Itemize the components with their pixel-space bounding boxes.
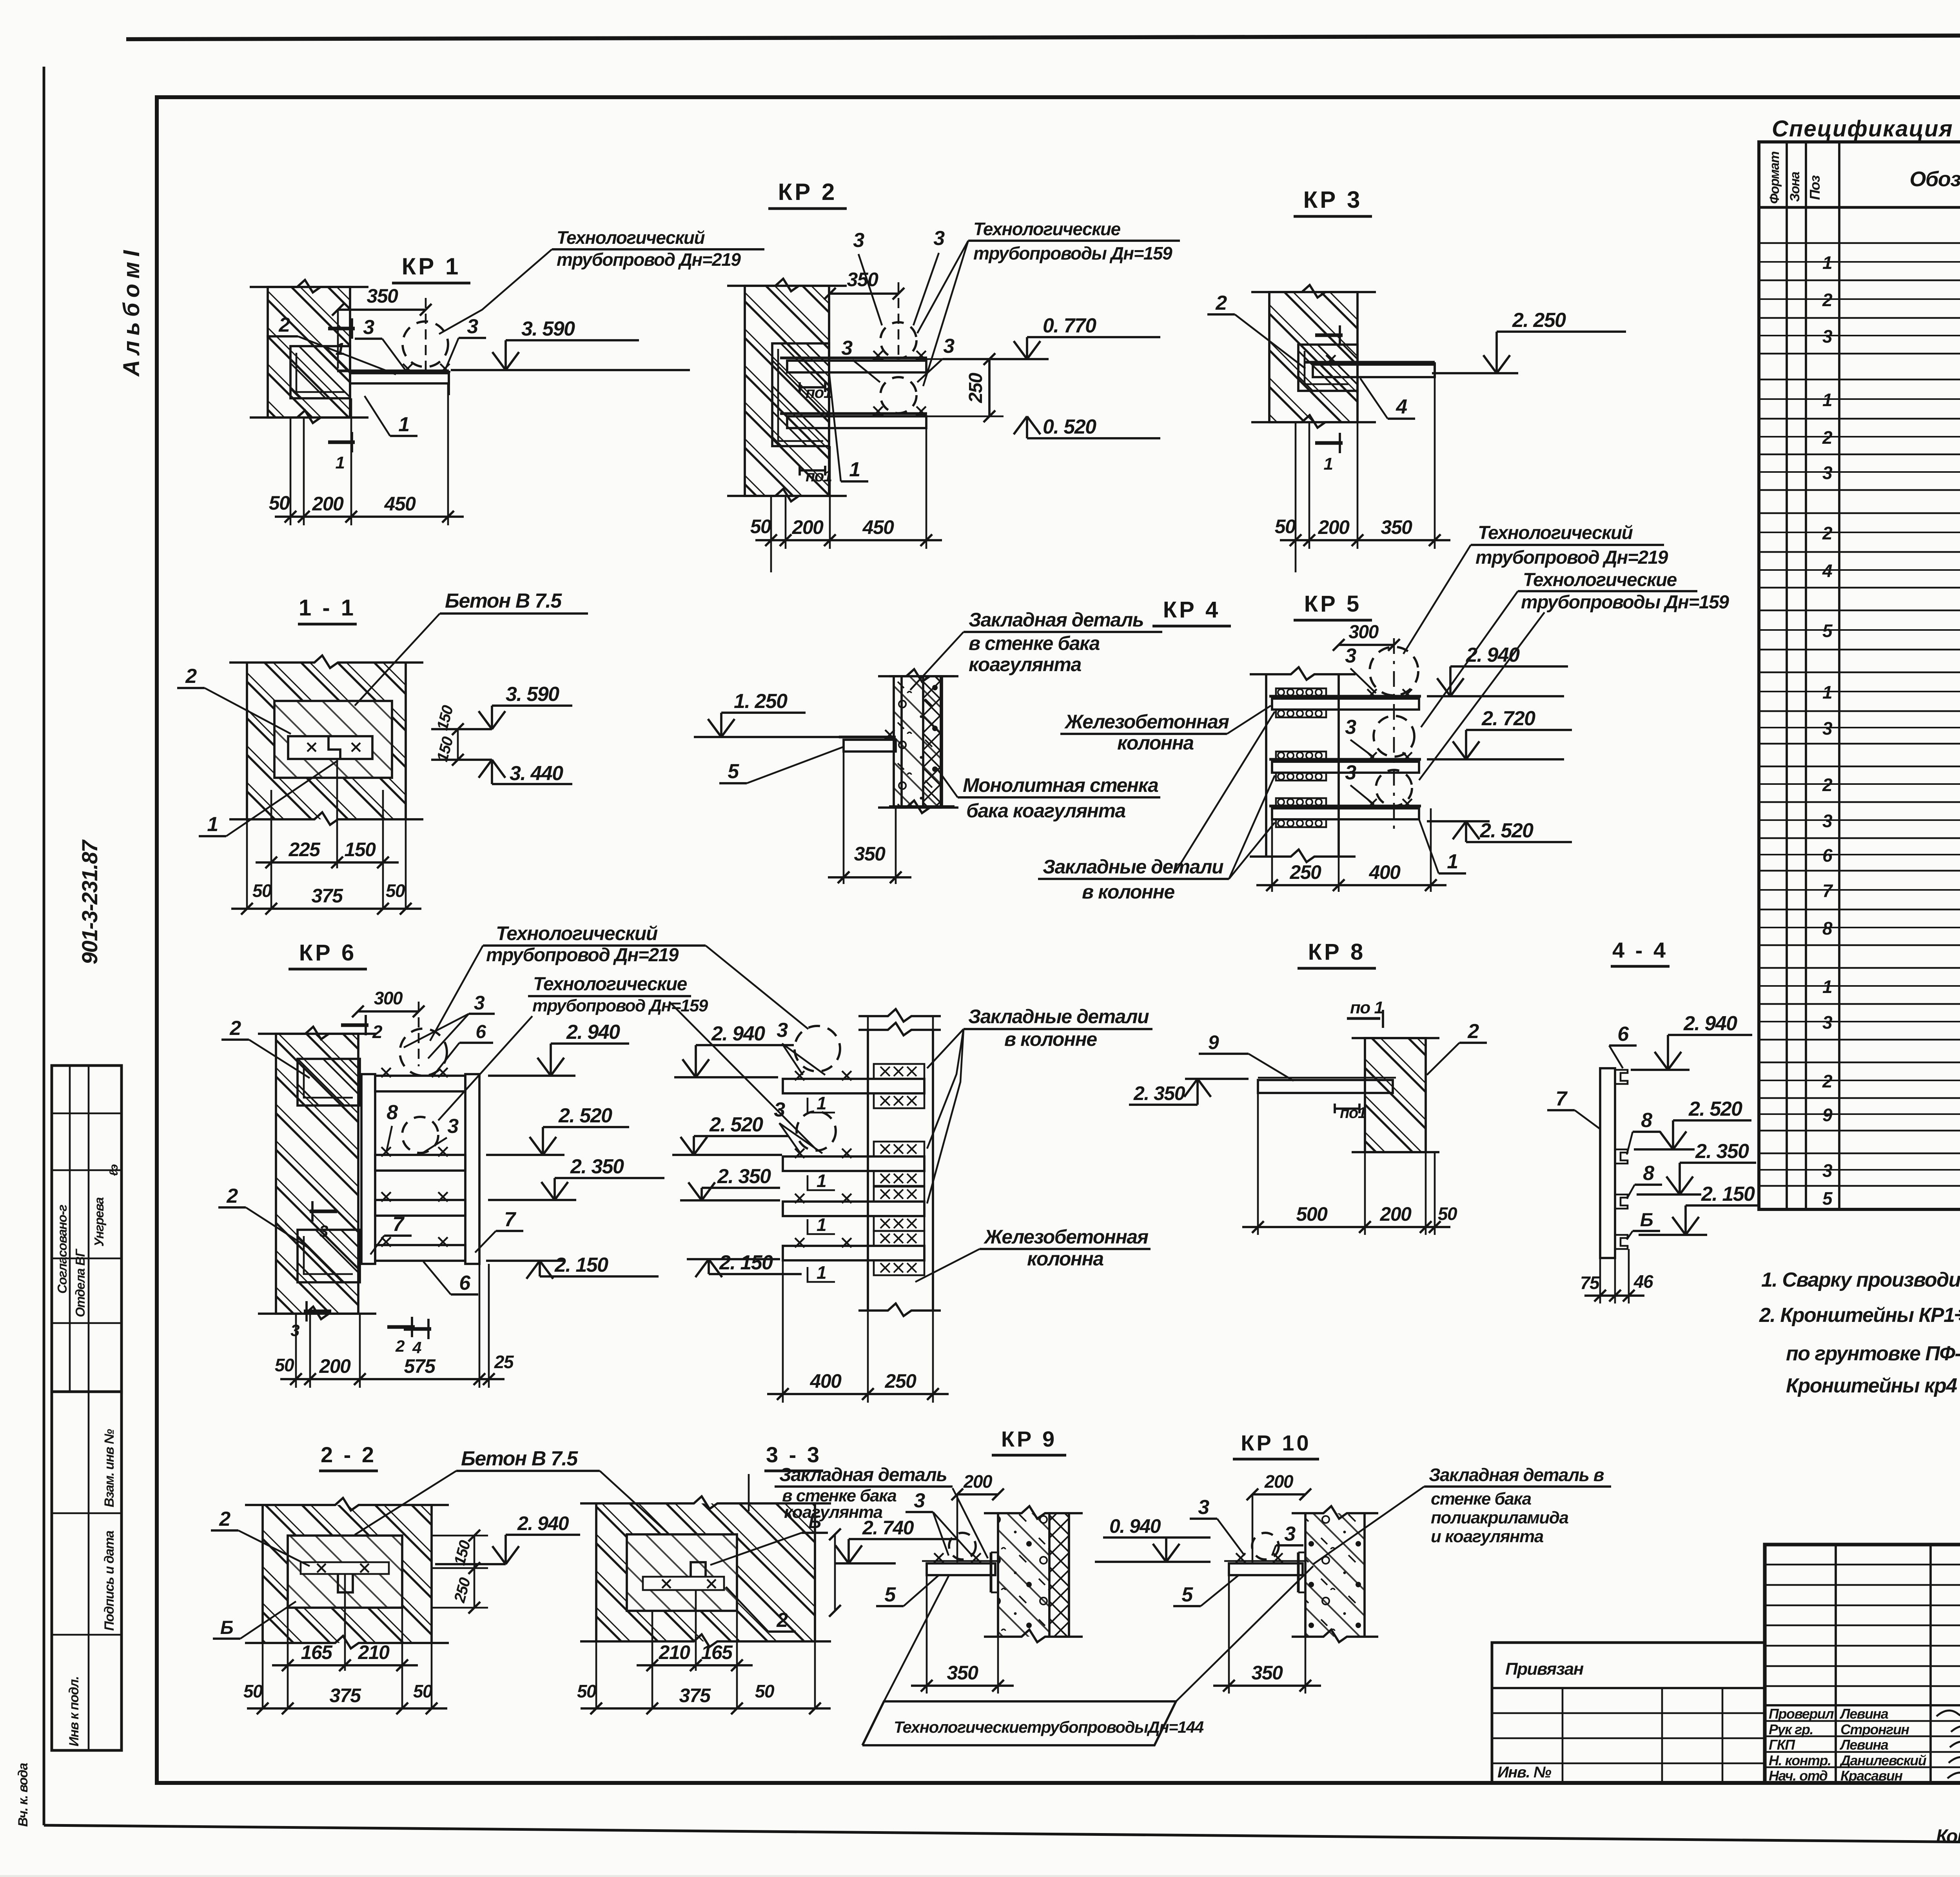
svg-text:3: 3 (447, 1115, 459, 1138)
KP2 dim 350 (830, 292, 898, 295)
svg-text:Н. контр.: Н. контр. (1769, 1752, 1831, 1768)
title block outer (1765, 1545, 1960, 1783)
KP6 dim 300 (358, 1010, 419, 1013)
KP1 section mark 1 bottom (328, 440, 355, 444)
2-2 bottom dims (287, 1608, 289, 1709)
svg-text:2: 2 (226, 1185, 238, 1207)
svg-text:46: 46 (1633, 1271, 1653, 1292)
KP8 bracket pos9 (1258, 1080, 1393, 1093)
KP10 dim 200 top (1252, 1493, 1305, 1496)
KP9 wall (998, 1513, 1049, 1637)
svg-text:8: 8 (1641, 1109, 1652, 1132)
svg-text:Красавин: Красавин (1840, 1768, 1903, 1784)
KP6 embedded detail upper pos2 (298, 1059, 360, 1106)
svg-text:3: 3 (1822, 326, 1833, 347)
2-2 wall block (263, 1505, 432, 1643)
KP7 levels left (696, 1044, 794, 1046)
KP6 embedded detail lower pos2 (298, 1230, 360, 1282)
KP7 brackets and embedded plates (783, 1079, 924, 1093)
svg-text:3: 3 (1345, 644, 1356, 667)
1-1 bottom dims (270, 790, 272, 909)
svg-text:7: 7 (1822, 880, 1833, 901)
svg-text:0. 940: 0. 940 (1109, 1515, 1161, 1537)
svg-text:1: 1 (1822, 977, 1832, 997)
svg-text:50: 50 (1438, 1204, 1457, 1224)
svg-text:1: 1 (207, 813, 218, 836)
svg-text:Вч. к. вода: Вч. к. вода (16, 1763, 31, 1827)
svg-text:2. 350: 2. 350 (1133, 1082, 1185, 1104)
svg-text:3: 3 (1822, 718, 1833, 739)
top sheet rule (126, 34, 1960, 39)
svg-text:Отдела ВГ: Отдела ВГ (73, 1248, 87, 1317)
KP6 section marks 3 (310, 1209, 337, 1213)
KP10 level 0.940 (1103, 1536, 1210, 1539)
svg-text:трубопровод Дн=219: трубопровод Дн=219 (557, 249, 741, 270)
svg-text:трубопровод Дн=159: трубопровод Дн=159 (532, 996, 708, 1015)
svg-text:КР 4: КР 4 (1163, 597, 1220, 623)
svg-text:50: 50 (243, 1681, 263, 1701)
KP1 pipe D219 (403, 321, 448, 367)
svg-text:Железобетонная: Железобетонная (1064, 711, 1229, 733)
2-2 embedded channel pos2 (301, 1562, 389, 1574)
svg-text:2: 2 (278, 314, 290, 336)
svg-text:коагулянта: коагулянта (784, 1503, 883, 1522)
svg-text:210: 210 (659, 1641, 691, 1663)
KP2 dim 250 vertical (988, 359, 991, 416)
svg-text:2: 2 (229, 1017, 241, 1040)
svg-text:5: 5 (728, 760, 739, 783)
KP3 wall section (1269, 292, 1357, 422)
privyazan table (1492, 1643, 1765, 1783)
svg-text:2: 2 (1822, 427, 1833, 448)
KP3 level 2.250 (1497, 330, 1626, 333)
svg-text:Бетон В 7.5: Бетон В 7.5 (461, 1447, 578, 1470)
KP5 column (1265, 674, 1267, 857)
svg-text:2. 350: 2. 350 (570, 1155, 624, 1178)
KP4 bracket pos5 (839, 736, 896, 739)
svg-text:575: 575 (404, 1355, 436, 1377)
svg-text:4: 4 (1396, 396, 1407, 418)
KP10 dim 350 (1228, 1575, 1230, 1694)
svg-text:3: 3 (914, 1489, 925, 1512)
svg-text:Привязан: Привязан (1505, 1659, 1584, 1679)
KP9 pipe (949, 1533, 976, 1559)
title block mid columns (1835, 1545, 1837, 1783)
svg-text:2: 2 (395, 1337, 405, 1355)
svg-text:3: 3 (943, 335, 955, 358)
svg-text:Закладная деталь: Закладная деталь (779, 1465, 947, 1485)
KP2 bottom dims (770, 496, 772, 572)
svg-text:375: 375 (312, 885, 344, 907)
svg-text:210: 210 (358, 1641, 390, 1663)
svg-text:8: 8 (387, 1101, 398, 1124)
svg-text:Формат: Формат (1767, 152, 1782, 204)
svg-text:5: 5 (1822, 621, 1833, 641)
svg-text:Технологический: Технологический (557, 227, 705, 248)
svg-text:3: 3 (1284, 1523, 1296, 1545)
svg-text:3: 3 (1822, 811, 1833, 831)
svg-text:Закладные детали: Закладные детали (968, 1006, 1149, 1027)
svg-text:по1: по1 (1340, 1104, 1366, 1122)
svg-text:165: 165 (301, 1641, 333, 1663)
KP2 wall section (745, 286, 829, 496)
svg-text:ТехнологическиетрубопроводыДн=: ТехнологическиетрубопроводыДн=144 (894, 1718, 1204, 1736)
KP6 section marks 2 (341, 1023, 368, 1027)
svg-text:25: 25 (494, 1352, 514, 1372)
svg-text:2. 150: 2. 150 (719, 1251, 773, 1274)
approval stamp table (52, 1066, 122, 1392)
KP5 level 2.940 (1450, 665, 1568, 668)
svg-text:Обозначение: Обозначение (1909, 167, 1960, 191)
svg-text:50: 50 (252, 880, 272, 901)
svg-text:трубопроводы Дн=159: трубопроводы Дн=159 (1521, 592, 1729, 613)
svg-text:0. 770: 0. 770 (1043, 314, 1096, 337)
svg-text:1: 1 (1822, 252, 1832, 273)
KP10 bracket pos5 (1229, 1563, 1303, 1575)
svg-text:3: 3 (853, 229, 864, 252)
KP9 dim 200 top (957, 1493, 998, 1496)
svg-text:5: 5 (1822, 1188, 1833, 1209)
svg-text:Б: Б (1640, 1210, 1653, 1231)
svg-text:2: 2 (1822, 1071, 1833, 1091)
KP9 bracket pos5 (927, 1563, 995, 1575)
svg-text:полиакриламида: полиакриламида (1431, 1508, 1568, 1527)
svg-text:4: 4 (412, 1338, 421, 1357)
svg-text:1 - 1: 1 - 1 (299, 595, 356, 621)
svg-text:1. 250: 1. 250 (734, 690, 788, 713)
KP1 section mark 1 top (328, 327, 355, 330)
svg-text:колонна: колонна (1117, 732, 1194, 754)
svg-text:трубопровод Дн=219: трубопровод Дн=219 (486, 945, 679, 966)
svg-text:200: 200 (312, 493, 344, 515)
title block small rows left (1765, 1564, 1960, 1566)
svg-text:2. 940: 2. 940 (517, 1512, 569, 1534)
svg-text:3: 3 (319, 1222, 328, 1240)
svg-text:колонна: колонна (1027, 1248, 1103, 1270)
KP2 level 0.520 (1027, 437, 1160, 439)
svg-text:3: 3 (1822, 463, 1833, 483)
svg-text:6: 6 (459, 1272, 471, 1294)
KP2 embedded channel pos2 (772, 343, 829, 446)
svg-text:1: 1 (398, 413, 409, 436)
svg-text:150: 150 (345, 839, 376, 860)
svg-text:5: 5 (884, 1583, 896, 1606)
svg-text:3: 3 (841, 337, 853, 359)
svg-text:2. 720: 2. 720 (1481, 707, 1535, 730)
svg-text:150: 150 (451, 1539, 474, 1567)
KP1 wall section (268, 287, 350, 418)
3-3 side dims (748, 1474, 750, 1511)
svg-text:1: 1 (1822, 390, 1832, 410)
spec table grid (1759, 142, 1960, 1209)
svg-text:Согласовано-г: Согласовано-г (55, 1205, 69, 1294)
svg-text:50: 50 (577, 1681, 597, 1701)
svg-text:7: 7 (504, 1208, 516, 1231)
svg-text:2. 940: 2. 940 (1683, 1012, 1737, 1035)
svg-text:в стенке бака: в стенке бака (969, 632, 1100, 654)
svg-text:трубопровод Дн=219: трубопровод Дн=219 (1475, 547, 1668, 568)
svg-text:901-3-231.87: 901-3-231.87 (77, 839, 102, 964)
KP5 wall fragment (902, 676, 923, 806)
svg-text:50: 50 (275, 1355, 294, 1375)
1-1 level 3.590 (431, 728, 492, 730)
svg-text:Спецификация элементов кро: Спецификация элементов кронштейнов (1772, 116, 1960, 142)
svg-text:300: 300 (374, 988, 403, 1008)
KP3 bottom dims (1295, 422, 1297, 572)
svg-text:250: 250 (885, 1370, 917, 1392)
KP10 wall (1305, 1513, 1365, 1637)
svg-text:3 - 3: 3 - 3 (766, 1442, 822, 1467)
svg-text:6: 6 (1617, 1023, 1629, 1046)
svg-text:Бетон В 7.5: Бетон В 7.5 (445, 590, 562, 612)
svg-text:1: 1 (1447, 850, 1457, 873)
svg-text:1: 1 (849, 458, 860, 481)
svg-text:бака коагулянта: бака коагулянта (966, 800, 1125, 822)
svg-text:Данилевский: Данилевский (1839, 1752, 1927, 1768)
svg-text:КР 1: КР 1 (402, 253, 461, 280)
svg-text:400: 400 (1369, 861, 1401, 883)
svg-text:250: 250 (965, 372, 986, 403)
KP5 dim 300 (1339, 644, 1394, 646)
svg-text:КР 9: КР 9 (1001, 1427, 1057, 1451)
KP9 tehnologicheskie label box (862, 1701, 1176, 1745)
KP4 dim 350 (843, 752, 845, 884)
svg-text:Технологические: Технологические (533, 974, 687, 995)
svg-text:7: 7 (392, 1213, 405, 1236)
KP7 column (867, 1030, 869, 1311)
svg-text:350: 350 (854, 843, 886, 865)
svg-text:450: 450 (862, 516, 895, 538)
outer sheet border left (43, 67, 45, 1825)
svg-text:350: 350 (367, 285, 399, 307)
svg-text:50: 50 (1275, 516, 1296, 537)
svg-text:400: 400 (810, 1370, 842, 1392)
svg-text:А л ь б о м I: А л ь б о м I (119, 250, 144, 377)
svg-text:450: 450 (384, 493, 416, 515)
svg-text:2 - 2: 2 - 2 (321, 1442, 376, 1467)
KP6 levels (551, 1042, 629, 1045)
KP7 bottom dims (782, 1260, 784, 1403)
svg-text:2. 940: 2. 940 (566, 1021, 620, 1044)
svg-text:3: 3 (933, 227, 945, 250)
svg-text:350: 350 (1381, 516, 1413, 538)
KP1 bracket angle pos1 (337, 370, 449, 372)
svg-text:1: 1 (1324, 454, 1333, 474)
svg-text:Кронштейны кр4 ÷ кр10 - см: Кронштейны кр4 ÷ кр10 - см. раздел „ А3 … (1786, 1374, 1960, 1397)
svg-text:2. Кронштейны КР1÷КР3 покры: 2. Кронштейны КР1÷КР3 покрыть масляной к… (1759, 1304, 1960, 1327)
svg-text:3: 3 (774, 1098, 785, 1121)
svg-text:1: 1 (817, 1262, 826, 1283)
svg-text:КР 2: КР 2 (778, 179, 837, 205)
svg-text:50: 50 (413, 1681, 433, 1701)
svg-text:250: 250 (1290, 861, 1322, 883)
svg-text:Технологические: Технологические (973, 219, 1121, 239)
KP5 level 2.520 (1466, 841, 1572, 843)
svg-text:300: 300 (1348, 622, 1379, 643)
svg-text:2. 150: 2. 150 (1701, 1183, 1755, 1205)
svg-text:2. 520: 2. 520 (1479, 819, 1534, 842)
svg-text:Технологический: Технологический (496, 922, 658, 944)
1-1 embedded channel (288, 736, 372, 759)
svg-text:225: 225 (289, 839, 321, 860)
svg-text:2. 250: 2. 250 (1512, 309, 1566, 332)
svg-text:9: 9 (1822, 1105, 1833, 1125)
svg-text:3: 3 (290, 1321, 299, 1340)
title block names (1765, 1720, 1960, 1722)
KP2 bracket pos1 upper (780, 357, 927, 359)
2-2 concrete insert (288, 1536, 402, 1608)
4-4 levels (1668, 1034, 1752, 1036)
svg-text:2: 2 (1822, 290, 1833, 310)
svg-text:1: 1 (336, 453, 345, 472)
KP8 level 2.350 (1185, 1078, 1249, 1080)
svg-text:350: 350 (947, 1662, 979, 1684)
KP1 bottom dims (290, 418, 292, 525)
KP2 pipes D159 (880, 322, 916, 358)
svg-text:350: 350 (1252, 1662, 1283, 1684)
KP6 right channel pos7 (465, 1074, 479, 1264)
1-1 concrete insert (274, 701, 392, 778)
KP2 bracket pos1 lower (780, 412, 927, 415)
1-1 level 3.440 (431, 759, 492, 761)
svg-text:2: 2 (1822, 523, 1833, 543)
svg-text:200: 200 (963, 1471, 993, 1492)
svg-text:3. 590: 3. 590 (521, 318, 575, 340)
3-3 wall block (596, 1503, 815, 1641)
svg-text:1: 1 (817, 1093, 826, 1113)
svg-text:0. 520: 0. 520 (1043, 416, 1096, 438)
inventory stamp table (52, 1392, 122, 1750)
svg-text:8: 8 (1643, 1162, 1654, 1185)
svg-text:3: 3 (1345, 761, 1356, 784)
svg-text:по грунтовке ПФ-020 (ТУ6-: по грунтовке ПФ-020 (ТУ6-10-1940-84) или… (1786, 1342, 1960, 1365)
KP6 rungs (375, 1076, 465, 1091)
2-2 level 2.940 (435, 1563, 506, 1565)
KP9 dim 350 (926, 1575, 928, 1694)
KP1 level 3.590 (506, 339, 639, 341)
3-3 concrete insert (627, 1534, 737, 1611)
svg-text:Подпись и дата: Подпись и дата (102, 1531, 117, 1631)
svg-text:Закладная деталь в: Закладная деталь в (1429, 1465, 1604, 1485)
svg-text:6: 6 (475, 1022, 486, 1042)
svg-text:КР 6: КР 6 (299, 940, 356, 966)
4-4 plate pos7 (1600, 1068, 1615, 1258)
svg-text:2. 520: 2. 520 (558, 1104, 612, 1127)
svg-text:4 - 4: 4 - 4 (1612, 938, 1668, 962)
svg-text:Технологический: Технологический (1478, 523, 1633, 543)
svg-text:50: 50 (386, 880, 405, 901)
svg-text:5: 5 (1181, 1583, 1193, 1606)
svg-text:200: 200 (319, 1355, 351, 1377)
svg-text:1. Сварку производить элект: 1. Сварку производить электродами типа Э… (1761, 1269, 1960, 1291)
svg-text:2. 150: 2. 150 (554, 1254, 608, 1276)
KP6 bottom dims (295, 1314, 297, 1388)
svg-text:КР 3: КР 3 (1303, 187, 1363, 213)
KP7 pipes (795, 1026, 840, 1071)
svg-text:2: 2 (776, 1609, 788, 1632)
svg-text:2: 2 (219, 1508, 230, 1530)
KP9 level 2.740 (849, 1538, 956, 1540)
svg-text:КР 10: КР 10 (1241, 1430, 1311, 1455)
svg-text:и коагулянта: и коагулянта (1431, 1527, 1544, 1546)
3-3 bottom dims (652, 1611, 653, 1709)
svg-text:2: 2 (1822, 775, 1833, 795)
svg-text:Зона: Зона (1788, 172, 1802, 202)
svg-text:3: 3 (1822, 1012, 1833, 1033)
svg-text:Инв. №: Инв. № (1497, 1764, 1552, 1781)
svg-text:350: 350 (847, 269, 879, 290)
svg-text:2. 940: 2. 940 (711, 1022, 765, 1045)
svg-text:в колонне: в колонне (1082, 881, 1174, 903)
svg-text:1: 1 (817, 1171, 826, 1191)
svg-text:по 1: по 1 (1350, 998, 1383, 1017)
svg-text:коагулянта: коагулянта (969, 654, 1081, 675)
svg-text:250: 250 (451, 1576, 474, 1605)
svg-text:Копировал: Копировал (1936, 1826, 1960, 1847)
svg-text:Проверил: Проверил (1769, 1706, 1834, 1722)
svg-text:3. 590: 3. 590 (506, 683, 559, 706)
4-4 channel stubs (1615, 1070, 1628, 1084)
svg-text:Взам. инв №: Взам. инв № (102, 1429, 117, 1507)
outer sheet border bottom (44, 1825, 1960, 1847)
KP1 embedded detail pos2 (290, 346, 350, 398)
KP3 bracket pos4 (1305, 361, 1435, 364)
KP4 wall column (894, 676, 941, 808)
svg-text:Б: Б (220, 1617, 233, 1638)
svg-text:Закладные детали: Закладные детали (1043, 856, 1223, 878)
svg-text:50: 50 (755, 1681, 775, 1701)
svg-text:1: 1 (1822, 682, 1832, 703)
svg-text:200: 200 (792, 516, 824, 538)
KP3 section marks 1 (1315, 333, 1343, 337)
svg-text:2: 2 (1467, 1020, 1479, 1043)
svg-text:Унгрева: Унгрева (92, 1197, 106, 1247)
svg-text:50: 50 (269, 492, 290, 514)
svg-text:2. 520: 2. 520 (1688, 1098, 1742, 1120)
svg-text:Железобетонная: Железобетонная (983, 1226, 1149, 1248)
svg-text:КР 5: КР 5 (1304, 591, 1361, 617)
KP6 section mark 4 (404, 1327, 431, 1331)
KP5 brackets with embedded plates (1269, 695, 1421, 698)
svg-text:стенке бака: стенке бака (1431, 1489, 1532, 1508)
svg-text:7: 7 (1555, 1087, 1568, 1110)
svg-text:Технологические: Технологические (1523, 570, 1677, 590)
svg-text:75: 75 (1580, 1273, 1600, 1293)
svg-text:500: 500 (1296, 1203, 1328, 1225)
svg-text:Закладная деталь: Закладная деталь (969, 609, 1143, 631)
svg-text:200: 200 (1380, 1203, 1412, 1225)
KP5 bottom dims (1271, 819, 1273, 892)
svg-text:Левина: Левина (1839, 1737, 1888, 1753)
svg-text:Нач. отд: Нач. отд (1769, 1768, 1828, 1784)
svg-text:2. 350: 2. 350 (717, 1165, 771, 1188)
svg-text:Рук гр.: Рук гр. (1769, 1721, 1813, 1737)
svg-text:50: 50 (750, 516, 771, 537)
svg-text:Поз: Поз (1807, 175, 1823, 200)
svg-text:КР 8: КР 8 (1308, 939, 1365, 965)
svg-text:2. 350: 2. 350 (1695, 1140, 1749, 1163)
KP6 left channel pos7 (361, 1074, 375, 1264)
svg-text:3. 440: 3. 440 (510, 762, 563, 785)
svg-text:Левина: Левина (1839, 1706, 1888, 1722)
KP8 bottom dims (1257, 1093, 1259, 1235)
1-1 dims 150 150 vertical (457, 729, 459, 760)
svg-text:2: 2 (372, 1022, 383, 1042)
4-4 bottom dims (1599, 1258, 1601, 1303)
spec table rows (1759, 242, 1960, 244)
svg-text:375: 375 (679, 1685, 711, 1706)
KP2 level 0.770 (1027, 336, 1160, 338)
